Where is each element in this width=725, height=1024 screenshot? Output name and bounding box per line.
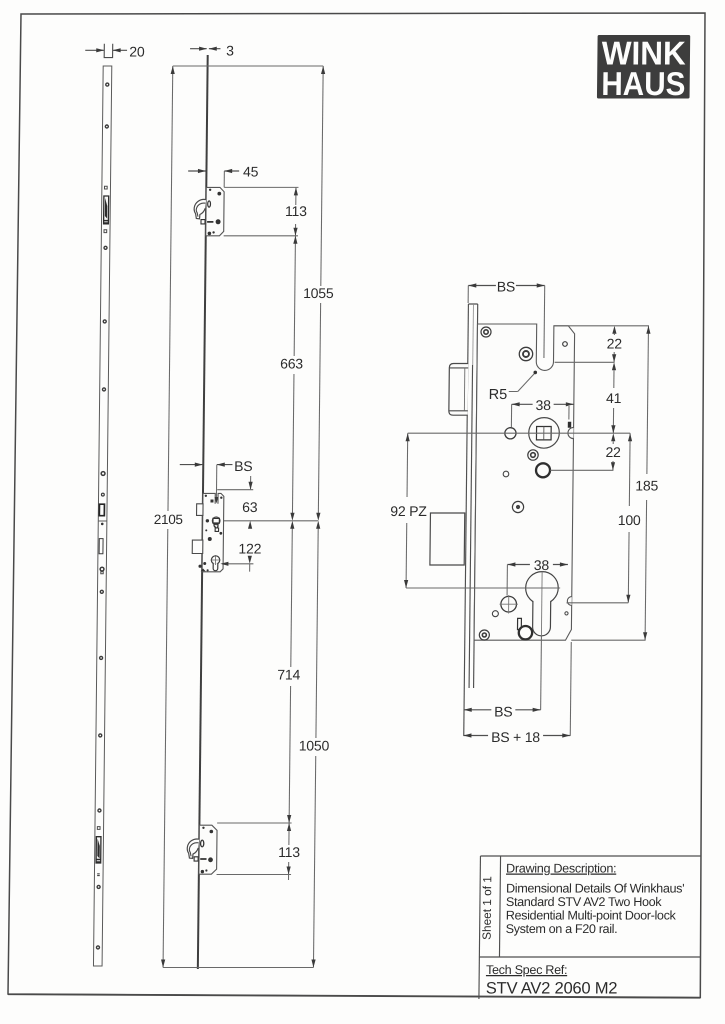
dimension 20 <box>85 44 145 60</box>
dimension 185 <box>634 326 661 640</box>
follower hub <box>529 418 560 449</box>
screw mid-left <box>512 501 523 512</box>
svg-text:Sheet 1 of 1: Sheet 1 of 1 <box>480 876 495 940</box>
extension lines bottom housing <box>217 822 292 824</box>
svg-text:22: 22 <box>607 336 623 352</box>
svg-text:41: 41 <box>606 390 622 406</box>
dimension 3 <box>190 43 234 59</box>
right-edge half hole at follower level <box>568 427 574 438</box>
svg-text:System on a F20 rail.: System on a F20 rail. <box>506 922 618 936</box>
svg-text:63: 63 <box>242 499 258 515</box>
svg-text:122: 122 <box>238 541 261 557</box>
follower reference line (middle drawing) <box>210 520 318 522</box>
svg-text:Dimensional Details Of Winkhau: Dimensional Details Of Winkhaus' <box>506 882 684 896</box>
svg-text:BS: BS <box>494 703 512 719</box>
svg-text:20: 20 <box>129 44 145 60</box>
bold ring lower <box>519 626 533 639</box>
notch-bottom reference line <box>555 361 615 363</box>
centre rail <box>198 55 208 969</box>
top hook claw <box>194 199 206 218</box>
strip middle latch keeper <box>99 504 104 516</box>
strip seam <box>99 520 107 522</box>
spindle reference line <box>566 602 628 604</box>
strip holes <box>96 83 109 949</box>
top hook housing (rail) <box>201 187 224 235</box>
svg-text:BS + 18: BS + 18 <box>491 729 540 745</box>
extension lines top housing <box>224 186 298 188</box>
screw below follower <box>528 450 539 460</box>
svg-text:HAUS: HAUS <box>601 65 685 102</box>
dimension 2105 <box>149 66 188 968</box>
svg-text:22: 22 <box>605 444 621 460</box>
latch bolt <box>449 364 468 416</box>
svg-text:1055: 1055 <box>303 285 334 301</box>
svg-text:R5: R5 <box>489 387 508 403</box>
strip top hook slot <box>104 196 109 224</box>
svg-text:100: 100 <box>618 512 641 528</box>
top reference line <box>173 65 323 67</box>
screw left of follower <box>505 428 516 439</box>
notch axis line <box>543 286 546 359</box>
small hole <box>503 471 509 477</box>
svg-text:STV AV2 2060 M2: STV AV2 2060 M2 <box>486 980 618 998</box>
svg-text:Residential Multi-point Door-l: Residential Multi-point Door-lock <box>506 909 677 923</box>
svg-text:45: 45 <box>243 164 259 180</box>
middle latch <box>197 504 204 516</box>
euro cylinder <box>525 572 558 636</box>
svg-text:3: 3 <box>226 43 234 59</box>
svg-text:113: 113 <box>285 203 307 219</box>
strip bottom hook slot <box>96 837 101 876</box>
cylinder axis reference line <box>406 587 560 589</box>
dimension BS + 18 <box>463 642 571 745</box>
case-top reference line <box>554 325 649 327</box>
svg-text:92 PZ: 92 PZ <box>390 503 427 519</box>
title block <box>479 856 702 999</box>
svg-text:38: 38 <box>535 397 551 413</box>
middle lock case (small) <box>202 493 224 571</box>
small rect <box>518 618 522 629</box>
small hole <box>492 611 498 617</box>
svg-text:663: 663 <box>280 356 303 372</box>
dimension 45 <box>188 164 259 188</box>
bottom hook housing (rail) <box>194 825 217 874</box>
dimension 100 <box>617 433 642 603</box>
screw bottom-left <box>479 630 489 640</box>
svg-text:Standard STV AV2 Two Hook: Standard STV AV2 Two Hook <box>506 895 662 909</box>
middle case details <box>198 495 222 572</box>
bottom reference line <box>163 967 313 969</box>
svg-text:113: 113 <box>278 844 300 860</box>
svg-text:38: 38 <box>534 557 550 573</box>
right-edge half hole at cylinder level <box>567 597 571 606</box>
svg-text:2105: 2105 <box>154 512 183 527</box>
svg-text:BS: BS <box>497 279 515 295</box>
follower axis reference line <box>408 432 630 434</box>
bottom hook claw <box>187 839 199 858</box>
dimension 38 (bottom) <box>507 557 568 595</box>
dimension 63 and 122 <box>216 476 262 572</box>
R5 label and leader <box>489 371 537 403</box>
faceplate strip <box>93 66 111 966</box>
dimension 1055 / 1050 line <box>296 66 337 968</box>
dimension chain 113/663/714/113 <box>275 187 308 880</box>
svg-text:185: 185 <box>635 478 658 494</box>
clip black rect <box>568 422 571 428</box>
faceplate lines <box>464 304 478 736</box>
small hole near edge <box>565 612 568 615</box>
strip small squares <box>97 186 107 829</box>
ring reference line <box>550 469 613 471</box>
svg-text:Tech Spec Ref:: Tech Spec Ref: <box>486 963 567 977</box>
case-bottom extension line <box>571 639 645 641</box>
bold ring <box>536 463 550 477</box>
dimension 38 (top) <box>511 397 574 427</box>
deadbolt <box>430 513 465 565</box>
strip deadbolt keeper <box>99 539 103 554</box>
dimension BS (middle) <box>179 458 252 503</box>
middle deadbolt <box>192 540 203 553</box>
screw left of cylinder <box>499 595 518 614</box>
middle cylinder <box>210 555 220 571</box>
lock case outline <box>474 324 575 640</box>
cylinder axis extension down <box>540 637 543 710</box>
dimension 92 PZ <box>389 433 428 588</box>
svg-text:1050: 1050 <box>299 738 330 754</box>
svg-text:Drawing Description:: Drawing Description: <box>506 862 616 876</box>
svg-text:714: 714 <box>277 667 300 683</box>
screw top-left <box>481 327 491 337</box>
dimension BS (top) <box>468 279 545 303</box>
dimension BS (bottom) <box>464 703 541 719</box>
svg-text:BS: BS <box>234 458 252 474</box>
dimension chain 22/41/22 <box>605 326 622 471</box>
screw upper-middle <box>519 347 533 360</box>
winkhaus logo box <box>597 35 690 102</box>
small hole top-right <box>563 342 568 347</box>
cylinder crosshair <box>540 572 543 637</box>
